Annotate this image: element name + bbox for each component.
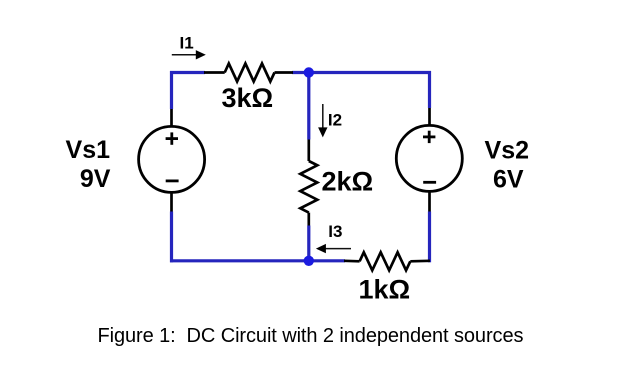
label Vs1 value [66,136,111,193]
svg-text:I1: I1 [180,34,194,53]
wire left vertical lower segment [170,212,173,263]
caption Figure 1 [98,325,524,347]
wire middle vertical lower segment [307,226,310,261]
Vs1 plus sign [166,132,178,144]
current arrow I2 [318,104,327,137]
node B bottom junction dot [304,256,314,266]
label 1k ohm value [359,275,411,305]
svg-text:9V: 9V [80,165,111,193]
wire top-right horizontal segment node to corner [292,71,431,74]
voltage source Vs2 circle [396,108,462,212]
svg-text:I3: I3 [328,222,342,241]
wire top-left horizontal segment [170,71,205,74]
Vs1 minus sign [166,179,179,182]
current arrow I1 [172,50,206,59]
svg-text:I2: I2 [328,111,342,130]
wire right vertical upper segment [428,71,431,108]
wire left vertical upper segment [170,71,173,109]
label 3k ohm value [222,83,274,113]
svg-text:3kΩ: 3kΩ [222,83,274,113]
Vs2 plus sign [423,131,435,143]
label Vs2 value [485,136,529,193]
svg-text:Figure 1: DC Circuit with 2 i: Figure 1: DC Circuit with 2 independent … [98,325,524,347]
wire bottom horizontal segment [170,259,345,262]
voltage source Vs1 circle [139,109,205,212]
resistor R1 3k ohm horizontal [204,64,293,82]
resistor R3 1k ohm horizontal [344,252,430,270]
wire middle vertical upper segment [307,73,310,140]
current arrow I3 [316,244,351,253]
label I3 [328,222,342,241]
svg-text:Vs2: Vs2 [485,136,529,164]
svg-text:2kΩ: 2kΩ [322,167,374,197]
svg-text:1kΩ: 1kΩ [359,275,411,305]
resistor R2 2k ohm vertical [300,140,317,226]
svg-text:Vs1: Vs1 [66,136,111,164]
svg-text:6V: 6V [493,165,524,193]
label I2 [328,111,342,130]
label I1 [180,34,194,53]
label 2k ohm value [322,167,374,197]
wire right vertical lower segment [428,212,431,263]
node A top junction dot [304,67,314,77]
Vs2 minus sign [423,181,436,184]
